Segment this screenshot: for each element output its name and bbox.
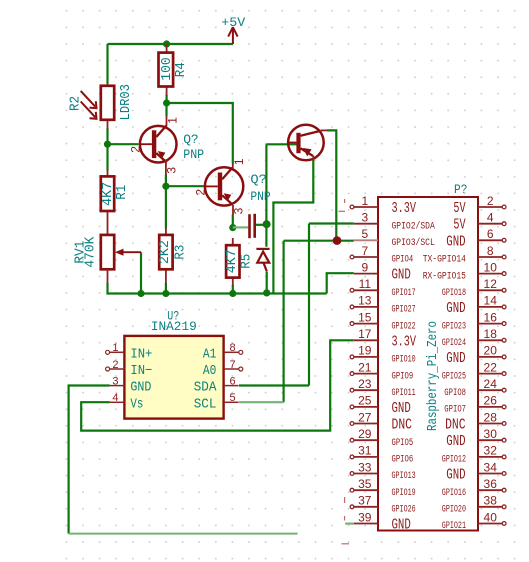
Q3 emitter lead	[312, 156, 314, 161]
wire node A to Q2 collector	[167, 103, 233, 164]
P1 pin 16 lead	[478, 323, 502, 325]
RV1 lead bottom	[107, 269, 109, 284]
svg-text:2: 2	[193, 189, 207, 196]
resistor R5 lead bottom	[232, 278, 234, 286]
svg-text:4K7: 4K7	[101, 182, 116, 206]
svg-text:30: 30	[484, 427, 498, 441]
svg-text:GND: GND	[392, 268, 411, 284]
svg-text:DNC: DNC	[445, 418, 466, 434]
svg-text:5: 5	[230, 392, 236, 404]
svg-text:3.3V: 3.3V	[392, 334, 417, 350]
svg-text:R3: R3	[173, 245, 188, 260]
P1 pin 22 lead	[478, 373, 502, 375]
svg-text:20: 20	[484, 344, 498, 358]
wire node C to R3 top	[165, 186, 167, 228]
svg-text:GPIO17: GPIO17	[392, 288, 416, 299]
junction GND rail / RV1 wiper	[137, 290, 144, 297]
svg-text:GPIO8: GPIO8	[444, 388, 466, 399]
svg-text:40: 40	[484, 510, 498, 524]
wire node B to R1 top	[106, 144, 108, 170]
resistor R2 LDR03 lead top	[107, 83, 109, 86]
svg-text:14: 14	[484, 294, 498, 308]
svg-text:GPIO27: GPIO27	[392, 305, 416, 316]
P1 pin 20 lead	[478, 356, 502, 358]
wire LDR R2 bottom to node B	[106, 128, 108, 144]
svg-text:R2: R2	[69, 96, 84, 111]
P1 pin 36 lead	[478, 489, 502, 491]
wire SCL net vertical	[283, 241, 285, 403]
svg-text:GND: GND	[446, 351, 465, 367]
svg-text:17: 17	[358, 327, 372, 341]
resistor R2 LDR03 body	[101, 86, 114, 120]
svg-text:24: 24	[484, 377, 498, 391]
svg-text:+5V: +5V	[221, 15, 245, 30]
P1 pin 21 lead	[354, 373, 378, 375]
wire 3.3V net P? pin 17 to U? Vs	[81, 340, 354, 430]
svg-text:GPIO26: GPIO26	[392, 505, 416, 516]
svg-text:3.3V: 3.3V	[392, 201, 417, 217]
wire SCL net to P? pin 5	[284, 240, 354, 242]
svg-text:Vs: Vs	[130, 396, 143, 412]
P1 pin 30 lead	[478, 439, 502, 441]
svg-text:38: 38	[484, 494, 498, 508]
P1 pin 10 lead	[478, 273, 502, 275]
svg-text:3: 3	[164, 167, 178, 174]
P1 pin 37 lead	[354, 506, 378, 508]
svg-text:GPIO22: GPIO22	[392, 321, 416, 332]
junction SCL net on P? pin 5 (red)	[333, 236, 342, 245]
svg-text:GPIO10: GPIO10	[392, 355, 416, 366]
svg-text:GPIO3/SCL: GPIO3/SCL	[392, 237, 435, 249]
resistor R1 lead bottom (to RV1)	[107, 211, 109, 235]
P1 pin 24 lead	[478, 389, 502, 391]
svg-text:RX-GPIO15: RX-GPIO15	[423, 271, 466, 282]
svg-text:5: 5	[361, 227, 368, 241]
svg-text:GPIO7: GPIO7	[444, 405, 466, 416]
wire Q3 emitter to GND rail	[273, 160, 313, 294]
U1 pin 7 lead	[224, 368, 239, 370]
power +5V symbol	[228, 27, 237, 44]
wire +5V rail to LDR R2 top	[106, 44, 108, 84]
svg-text:GPIO21: GPIO21	[442, 521, 466, 532]
wire capacitor C1 right to node E	[256, 224, 267, 226]
wire diode D1 bottom to GND rail	[266, 272, 268, 293]
P1 pin 4 lead	[478, 223, 502, 225]
wire Q3 collector to SCL net	[327, 130, 336, 240]
svg-text:22: 22	[484, 360, 498, 374]
svg-text:26: 26	[484, 394, 498, 408]
wire GND bottom run (dangling)	[69, 533, 298, 535]
transistor Q1 (PNP)	[140, 125, 177, 162]
svg-text:36: 36	[484, 477, 498, 491]
svg-text:100: 100	[160, 57, 175, 81]
U1 pin 1 lead	[110, 351, 125, 353]
svg-text:9: 9	[361, 260, 368, 274]
P1 pin 23 lead	[354, 389, 378, 391]
wire stub P? pin 39 GND	[345, 522, 354, 524]
svg-text:19: 19	[358, 344, 372, 358]
resistor R4 body	[159, 53, 174, 87]
U1 pin 8 lead	[224, 351, 239, 353]
svg-text:GPIO19: GPIO19	[392, 488, 416, 499]
resistor R4 lead top	[166, 44, 168, 53]
svg-text:A1: A1	[203, 346, 217, 362]
U1 pin 4 lead	[110, 401, 125, 403]
svg-text:GPIO11: GPIO11	[392, 388, 416, 399]
RV1 wiper arrow	[121, 251, 141, 253]
svg-text:1: 1	[232, 158, 246, 165]
P1 pin 9 lead	[354, 273, 378, 275]
svg-text:28: 28	[484, 410, 498, 424]
svg-text:13: 13	[358, 294, 372, 308]
svg-text:15: 15	[358, 310, 372, 324]
P1 pin 15 lead	[354, 323, 378, 325]
resistor R4 lead bottom	[166, 86, 168, 96]
wire GND rail bottom	[108, 283, 327, 294]
svg-text:GPIO25: GPIO25	[442, 371, 466, 382]
resistor R3 lead top	[165, 228, 167, 235]
svg-text:GND: GND	[446, 468, 465, 484]
svg-text:2: 2	[112, 359, 118, 371]
wire Q3 base horizontal	[266, 143, 298, 145]
svg-text:7: 7	[361, 244, 368, 258]
svg-text:18: 18	[484, 327, 498, 341]
svg-text:GND: GND	[392, 517, 411, 533]
svg-text:2: 2	[487, 194, 494, 208]
svg-text:TX-GPIO14: TX-GPIO14	[423, 255, 466, 266]
P1 pin 14 lead	[478, 306, 502, 308]
svg-text:37: 37	[358, 494, 372, 508]
svg-text:INA219: INA219	[151, 319, 197, 334]
Q1 collector lead	[166, 116, 168, 126]
svg-text:A0: A0	[203, 363, 217, 379]
P1 pin 3 lead	[354, 223, 378, 225]
svg-text:4: 4	[112, 392, 118, 404]
wire Q3 base column down to diode D1	[265, 144, 267, 247]
P1 pin 26 lead	[478, 406, 502, 408]
artifact dashes	[339, 199, 350, 544]
svg-text:R5: R5	[240, 254, 255, 269]
svg-text:16: 16	[484, 310, 498, 324]
P1 pin 33 lead	[354, 473, 378, 475]
wire GND rail to P? pin 9	[327, 273, 354, 293]
junction +5V rail / R4 top	[163, 40, 170, 47]
wire node D to capacitor C1 left	[233, 226, 248, 228]
svg-text:8: 8	[487, 244, 494, 258]
P1 pin 6 lead	[478, 239, 502, 241]
wire SCL net to U? SCL pin	[239, 401, 284, 403]
P1 pin 17 lead	[354, 339, 378, 341]
P1 pin 27 lead	[354, 423, 378, 425]
svg-text:Q?: Q?	[183, 132, 199, 147]
svg-text:GPIO23: GPIO23	[442, 321, 466, 332]
svg-text:GPIO4: GPIO4	[392, 255, 414, 266]
wire SDA net vertical	[308, 224, 310, 386]
svg-text:GND: GND	[130, 380, 151, 396]
Q2 collector lead	[232, 163, 234, 169]
P1 pin 2 lead	[478, 206, 502, 208]
svg-text:GPIO20: GPIO20	[442, 505, 466, 516]
resistor R3 body	[159, 235, 172, 269]
wire Q1 emitter to node C	[165, 175, 167, 187]
svg-text:8: 8	[230, 342, 236, 354]
U1 pin 6 lead	[224, 385, 239, 387]
P1 pin 34 lead	[478, 473, 502, 475]
svg-text:23: 23	[358, 377, 372, 391]
svg-text:12: 12	[484, 277, 498, 291]
svg-text:31: 31	[358, 444, 372, 458]
P1 pin 1 lead	[354, 206, 378, 208]
P1 pin 11 lead	[354, 289, 378, 291]
diode D1	[256, 249, 269, 272]
svg-text:39: 39	[358, 510, 372, 524]
node D junction (Q2 emitter/C1/R5)	[229, 224, 236, 231]
connector P1 Raspberry_Pi_Zero body	[378, 197, 478, 531]
wire node B to Q1 base	[108, 143, 139, 145]
svg-text:GPIO16: GPIO16	[442, 488, 466, 499]
svg-text:6: 6	[230, 375, 236, 387]
wire R3 bottom to GND rail	[165, 283, 167, 294]
svg-text:SCL: SCL	[194, 396, 217, 412]
junction GND rail / D1 bottom	[263, 289, 270, 296]
P1 pin 5 lead	[354, 239, 378, 241]
svg-text:1: 1	[112, 342, 118, 354]
svg-text:Q?: Q?	[250, 172, 267, 187]
svg-text:21: 21	[358, 360, 372, 374]
svg-text:3: 3	[361, 210, 368, 224]
svg-text:3: 3	[112, 375, 118, 387]
P1 pin 7 lead	[354, 256, 378, 258]
wire R5 bottom to GND rail	[232, 285, 234, 294]
svg-text:27: 27	[358, 410, 372, 424]
svg-text:GPIO24: GPIO24	[442, 338, 466, 349]
svg-text:34: 34	[484, 460, 498, 474]
transistor Q3 (PNP, collector right)	[288, 125, 324, 161]
svg-text:Raspberry_Pi_Zero: Raspberry_Pi_Zero	[426, 321, 441, 431]
resistor R5 lead top	[232, 238, 234, 245]
svg-text:6: 6	[487, 227, 494, 241]
resistor R1 lead top	[107, 170, 109, 176]
node C junction (Q1 emitter/R3/Q2 base)	[162, 183, 169, 190]
capacitor C1 plates	[248, 214, 256, 238]
svg-text:GND: GND	[446, 234, 465, 250]
svg-text:11: 11	[359, 277, 372, 291]
svg-text:SDA: SDA	[194, 380, 217, 396]
svg-text:32: 32	[484, 444, 498, 458]
transistor Q2 (PNP)	[205, 167, 243, 205]
svg-text:4: 4	[487, 210, 494, 224]
P1 pin 8 lead	[478, 256, 502, 258]
Q2 emitter lead	[232, 205, 234, 215]
svg-text:GPIO18: GPIO18	[442, 288, 466, 299]
P1 pin 32 lead	[478, 456, 502, 458]
svg-text:2K2: 2K2	[158, 240, 173, 264]
resistor R3 lead bottom	[165, 269, 167, 284]
P1 pin 39 lead	[354, 523, 378, 525]
svg-text:25: 25	[358, 394, 372, 408]
svg-text:470K: 470K	[84, 236, 99, 268]
wire node C to Q2 base	[166, 185, 206, 187]
P1 pin 19 lead	[354, 356, 378, 358]
Q3 collector lead	[321, 129, 328, 131]
wire U? GND pin down left	[69, 386, 110, 534]
resistor R1 body	[101, 176, 114, 211]
svg-text:GND: GND	[392, 401, 411, 417]
op-amp U1 INA219 body	[124, 336, 223, 419]
wire node A to Q1 collector	[165, 103, 167, 116]
junction GND rail / R5 bottom	[229, 290, 236, 297]
wire +5V rail top	[108, 43, 233, 45]
resistor R5 body	[226, 245, 239, 277]
svg-text:5V: 5V	[453, 201, 465, 217]
svg-text:29: 29	[358, 427, 372, 441]
P1 pin 29 lead	[354, 439, 378, 441]
wire Q2 emitter to node D	[232, 215, 234, 228]
svg-text:GPIO9: GPIO9	[392, 371, 414, 382]
node E junction (C1/Q3 base column/D1)	[263, 220, 271, 228]
svg-text:LDR03: LDR03	[119, 84, 134, 120]
U1 pin 3 lead	[110, 385, 125, 387]
P1 pin 38 lead	[478, 506, 502, 508]
P1 pin 35 lead	[354, 489, 378, 491]
U1 pin 2 lead	[110, 368, 125, 370]
P1 pin 28 lead	[478, 423, 502, 425]
wire R4 bottom to node A	[166, 95, 168, 103]
svg-text:4K7: 4K7	[225, 249, 240, 273]
svg-text:R1: R1	[115, 185, 130, 200]
potentiometer RV1 body	[101, 235, 114, 269]
svg-text:3: 3	[231, 207, 245, 214]
svg-text:PNP: PNP	[183, 147, 204, 162]
svg-text:R4: R4	[174, 62, 189, 77]
svg-text:IN−: IN−	[130, 363, 152, 379]
U1 pin 5 lead	[224, 401, 239, 403]
svg-text:2: 2	[128, 146, 142, 153]
P1 pin 13 lead	[354, 306, 378, 308]
svg-text:10: 10	[484, 260, 498, 274]
wire RV1 wiper to GND rail	[140, 252, 142, 293]
node B junction (R2/R1/Q1 base)	[104, 141, 111, 148]
node A junction (R4 bottom)	[163, 99, 170, 106]
svg-text:GPIO5: GPIO5	[392, 438, 414, 449]
LDR light arrows	[81, 91, 97, 119]
svg-text:DNC: DNC	[392, 418, 413, 434]
svg-text:GPIO12: GPIO12	[442, 455, 466, 466]
P1 pin 31 lead	[354, 456, 378, 458]
resistor R2 LDR03 lead bottom	[107, 120, 109, 129]
svg-text:1: 1	[361, 194, 368, 208]
svg-text:GPIO13: GPIO13	[392, 471, 416, 482]
svg-text:GND: GND	[446, 434, 465, 450]
svg-text:GPIO2/SDA: GPIO2/SDA	[392, 220, 435, 232]
wire SDA net to U? SDA pin	[239, 384, 309, 386]
svg-text:5V: 5V	[453, 218, 465, 234]
junction GND rail / R3 bottom	[162, 290, 169, 297]
svg-text:GND: GND	[446, 301, 465, 317]
P1 pin 18 lead	[478, 339, 502, 341]
svg-text:IN+: IN+	[130, 346, 152, 362]
wire SDA net to P? pin 3	[309, 222, 354, 224]
P1 pin 40 lead	[478, 523, 502, 525]
Q1 emitter lead	[165, 160, 167, 175]
svg-text:1: 1	[165, 117, 179, 124]
svg-text:33: 33	[358, 460, 372, 474]
svg-text:GPIO6: GPIO6	[392, 455, 414, 466]
svg-text:PNP: PNP	[250, 189, 270, 204]
P1 pin 12 lead	[478, 289, 502, 291]
svg-text:35: 35	[358, 477, 372, 491]
P1 pin 25 lead	[354, 406, 378, 408]
svg-text:7: 7	[230, 359, 236, 371]
svg-text:P?: P?	[454, 182, 468, 197]
